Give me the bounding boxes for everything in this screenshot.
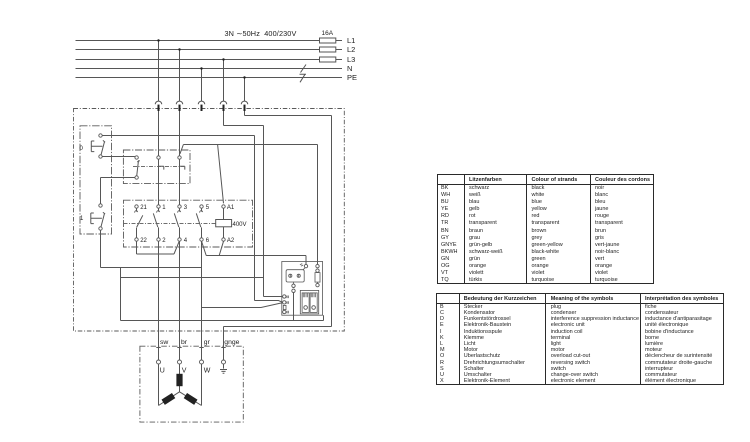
svg-text:5: 5 [206, 205, 210, 211]
svg-text:W: W [204, 368, 211, 375]
svg-text:gr: gr [204, 339, 211, 346]
svg-text:400V: 400V [233, 222, 247, 228]
svg-text:L2: L2 [347, 45, 355, 54]
svg-text:4: 4 [184, 238, 188, 244]
svg-text:U: U [160, 368, 165, 375]
svg-text:1: 1 [80, 216, 84, 222]
svg-text:2: 2 [162, 238, 166, 244]
svg-text:22: 22 [140, 238, 147, 244]
svg-text:sw: sw [160, 339, 168, 346]
svg-text:PE: PE [347, 73, 357, 82]
svg-text:L3: L3 [347, 55, 355, 64]
svg-text:16A: 16A [322, 30, 334, 37]
svg-text:0: 0 [80, 146, 84, 152]
svg-text:A1: A1 [227, 205, 235, 211]
svg-text:V: V [182, 368, 187, 375]
svg-text:1: 1 [162, 205, 166, 211]
svg-text:L1: L1 [347, 36, 355, 45]
svg-text:N: N [347, 64, 352, 73]
svg-text:3N ∼50Hz 400/230V: 3N ∼50Hz 400/230V [225, 29, 297, 38]
svg-text:A2: A2 [227, 238, 235, 244]
svg-text:br: br [181, 339, 188, 346]
svg-text:3: 3 [184, 205, 188, 211]
svg-text:21: 21 [140, 205, 147, 211]
svg-text:gnge: gnge [224, 339, 239, 346]
svg-text:6: 6 [206, 238, 210, 244]
